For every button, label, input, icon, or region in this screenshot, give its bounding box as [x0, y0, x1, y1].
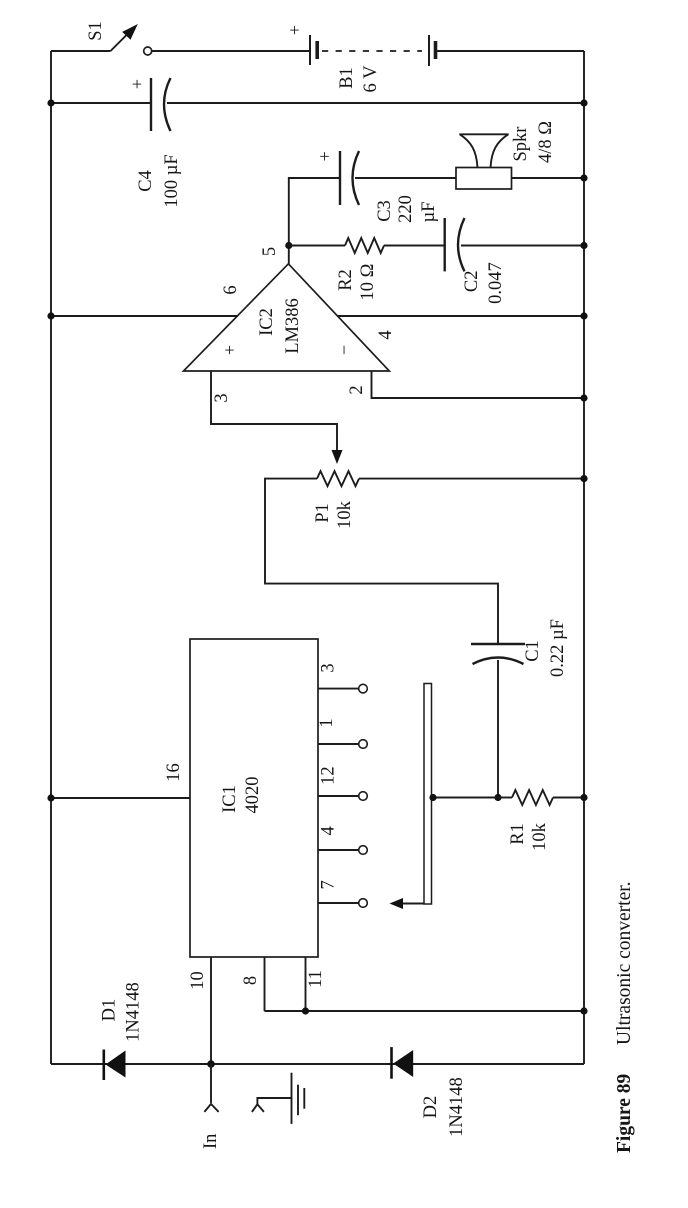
svg-text:2: 2 [347, 385, 367, 394]
svg-text:220: 220 [396, 195, 416, 223]
resistor R1 [512, 790, 553, 805]
pin 12 stub and terminal [318, 792, 367, 801]
junction: pin2 bottom rail [580, 394, 587, 401]
switch S1 contact circle [144, 47, 152, 55]
svg-text:3: 3 [212, 393, 232, 402]
svg-text:10k: 10k [530, 822, 550, 851]
svg-text:4020: 4020 [243, 777, 263, 814]
svg-text:R2: R2 [336, 269, 356, 291]
svg-text:7: 7 [319, 880, 339, 889]
svg-text:µF: µF [419, 202, 439, 223]
wire: transducer tap down to R1 node [432, 797, 499, 799]
wire: pin8/11 drop to bottom rail [265, 1010, 585, 1012]
svg-text:16: 16 [164, 763, 184, 782]
label D2 1N4148 [421, 1077, 467, 1137]
wire: pin 16 from top rail [51, 797, 190, 799]
svg-text:1N4148: 1N4148 [447, 1077, 467, 1137]
wire: pin 10 to left rail [210, 957, 212, 1064]
IC1 4020 body [190, 639, 318, 957]
capacitor C1 [471, 644, 525, 664]
svg-text:R1: R1 [508, 823, 528, 845]
label C2 0.047 [462, 262, 506, 304]
svg-text:C3: C3 [375, 200, 395, 222]
svg-text:−: − [334, 345, 354, 355]
junction: pin6 top rail [47, 312, 54, 319]
svg-text:C1: C1 [523, 640, 543, 662]
svg-text:1N4148: 1N4148 [124, 982, 144, 1042]
junction: pin5 node [285, 242, 292, 249]
svg-text:4/8 Ω: 4/8 Ω [536, 121, 556, 163]
svg-text:IC1: IC1 [220, 785, 240, 813]
wire: speaker to bottom rail [512, 177, 585, 179]
svg-text:1: 1 [317, 718, 337, 727]
capacitor C2 [445, 218, 465, 271]
wire: pin 11 [305, 957, 307, 1011]
svg-text:12: 12 [319, 766, 339, 785]
wire: R1 leads [498, 797, 512, 799]
junction: C1/R1 node [494, 794, 501, 801]
junction: transducer tap [429, 794, 436, 801]
svg-text:11: 11 [306, 970, 326, 988]
svg-text:10 Ω: 10 Ω [358, 264, 378, 301]
wire: P1 bottom lead [359, 478, 584, 480]
transducer bar [424, 684, 432, 905]
In terminal chevron [204, 1104, 218, 1112]
wire: right rail from switch to battery [152, 50, 310, 52]
label P1 10k [313, 500, 355, 529]
svg-text:6: 6 [221, 285, 241, 294]
wire: In lead [210, 1064, 212, 1103]
wire: pin 8 [264, 957, 266, 1011]
wire: C4 branch lower [167, 102, 584, 104]
wire: ground lead [257, 1098, 291, 1104]
label C4 100uF [136, 154, 182, 207]
wire: pin 6 from top rail to op-amp [51, 315, 238, 317]
wire: right rail lower segment [436, 50, 585, 52]
probe arrowhead [390, 898, 404, 909]
wire: pin5 node down to R2 [289, 245, 345, 247]
junction: pin16 top rail [47, 794, 54, 801]
wire: pin 3 to potentiometer wiper [211, 371, 337, 450]
junction: R1 bottom rail [580, 794, 587, 801]
capacitor C4 [151, 78, 171, 131]
svg-text:8: 8 [241, 976, 261, 985]
svg-text:+: + [127, 79, 147, 89]
wire: pin 5 output from apex [289, 178, 340, 264]
svg-text:C4: C4 [136, 170, 156, 192]
svg-text:+: + [285, 25, 305, 35]
pin 3 stub and terminal [318, 684, 367, 693]
svg-text:Figure 89: Figure 89 [614, 1073, 635, 1153]
speaker body [456, 168, 512, 190]
wire: pin 2 to bottom rail [372, 371, 585, 398]
svg-text:D2: D2 [421, 1096, 441, 1119]
svg-text:B1: B1 [337, 67, 357, 89]
wire: P1 top lead and left connection to C1 [265, 479, 498, 644]
label D1 1N4148 [100, 982, 144, 1042]
switch S1 lever [111, 24, 138, 51]
wire: C2 to bottom rail [461, 245, 584, 247]
junction: C4 top [47, 99, 54, 106]
label R2 10ohm [336, 264, 378, 301]
junction: pin4 bottom rail [580, 312, 587, 319]
label C1 0.22uF [523, 619, 568, 677]
battery B1 [310, 35, 436, 66]
wire: left rail (through D1, In node, D2) [51, 1063, 584, 1065]
junction: In node on left rail [207, 1060, 215, 1068]
ground symbol [292, 1073, 305, 1124]
junction: pin11 node [302, 1007, 309, 1014]
svg-text:0.047: 0.047 [486, 262, 506, 304]
svg-text:100 µF: 100 µF [162, 154, 182, 207]
junction: P1 bottom rail [580, 475, 587, 482]
label R1 10k [508, 822, 550, 851]
svg-text:IC2: IC2 [257, 308, 277, 336]
svg-text:10k: 10k [335, 500, 355, 529]
diode D1 [104, 1050, 126, 1081]
svg-text:Ultrasonic converter.: Ultrasonic converter. [614, 881, 635, 1045]
svg-text:P1: P1 [313, 503, 333, 523]
figure caption [614, 881, 635, 1153]
label Spkr 4/8 ohm [511, 121, 556, 163]
svg-text:6 V: 6 V [361, 65, 381, 93]
label C3 220uF [375, 195, 439, 223]
svg-text:D1: D1 [100, 999, 120, 1022]
wire: C1 to R1 node [497, 660, 499, 798]
svg-text:3: 3 [319, 663, 339, 672]
svg-text:10: 10 [188, 971, 208, 990]
label IC1 4020 [220, 777, 263, 814]
svg-text:LM386: LM386 [283, 298, 303, 354]
junction: C2 bottom rail [580, 242, 587, 249]
wire: top supply rail [50, 51, 52, 1064]
potentiometer P1 [317, 471, 359, 486]
ground terminal chevron [252, 1104, 264, 1112]
svg-text:+: + [220, 345, 240, 355]
wire: bottom ground rail [583, 51, 585, 1064]
label B1 6V [337, 65, 381, 93]
pin 4 stub and terminal [318, 846, 367, 855]
svg-text:S1: S1 [86, 21, 106, 41]
speaker horn [459, 134, 508, 167]
pin 7 stub and terminal [318, 899, 367, 908]
svg-text:5: 5 [260, 247, 280, 256]
wire: right rail upper segment (to switch pivot) [51, 50, 111, 52]
wire: R2 to C2 [384, 245, 445, 247]
pin 1 stub and terminal [318, 740, 367, 749]
wire: C3 to speaker [355, 177, 456, 179]
label IC2 LM386 [257, 298, 303, 354]
svg-text:4: 4 [376, 330, 396, 339]
capacitor C3 [340, 151, 359, 205]
wiper arrowhead [332, 450, 343, 464]
junction: speaker bottom rail [580, 174, 587, 181]
junction: pin8/11 bottom rail [580, 1007, 587, 1014]
op-amp IC2 LM386 [184, 264, 390, 371]
svg-text:4: 4 [319, 826, 339, 835]
junction: C4 bottom [580, 99, 587, 106]
diode D2 [392, 1047, 414, 1079]
wire: C4 branch upper [51, 102, 151, 104]
svg-text:+: + [315, 151, 335, 161]
wire: transducer probe lead [401, 903, 424, 905]
resistor R2 [345, 238, 384, 253]
svg-text:C2: C2 [462, 271, 482, 293]
wire: pin 4 from op-amp to bottom rail [337, 315, 584, 317]
svg-text:0.22 µF: 0.22 µF [548, 619, 568, 677]
svg-text:In: In [201, 1134, 221, 1149]
svg-text:Spkr: Spkr [511, 127, 531, 162]
